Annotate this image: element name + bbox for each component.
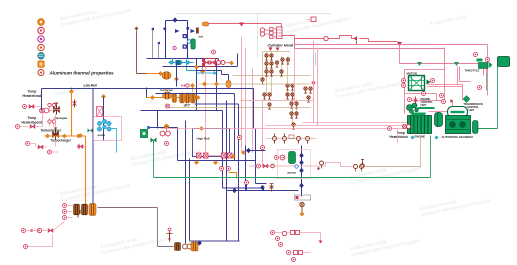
junction 5 — [198, 241, 202, 246]
block 7 — [202, 63, 205, 66]
arrow — [191, 29, 196, 33]
sensor 26 — [422, 92, 426, 96]
red cluster A — [271, 231, 323, 247]
navy diamonds — [247, 148, 251, 153]
component 5 — [55, 84, 94, 98]
sensor 8 — [16, 125, 20, 129]
wire 30 — [135, 27, 139, 31]
wire 55 — [409, 100, 446, 102]
magenta sensor — [173, 46, 177, 50]
svg-text:pump: pump — [98, 133, 106, 137]
block 9 — [270, 32, 274, 35]
component 25 — [97, 119, 111, 131]
junction 1 — [233, 188, 237, 193]
wire 33 — [146, 88, 148, 98]
component 1 — [60, 2, 132, 29]
sensor 15 — [257, 164, 261, 168]
component 9 — [420, 192, 492, 219]
block 3 — [164, 28, 167, 31]
node 16 — [231, 154, 235, 158]
wire 67 — [275, 233, 321, 241]
arrow 6 — [319, 241, 323, 244]
wire 34 — [156, 94, 235, 161]
legend icon 6 orange block — [38, 61, 44, 67]
node 18 — [213, 160, 217, 164]
red sensor — [212, 50, 216, 54]
component 35 — [300, 202, 304, 212]
wire 53 — [405, 94, 437, 101]
svg-text:UNIT: UNIT — [469, 109, 475, 112]
arrow 4 — [269, 48, 280, 52]
valve 9 — [290, 102, 293, 108]
valve 12 — [268, 103, 271, 109]
node 1 — [170, 61, 173, 64]
node 7 — [101, 94, 105, 98]
sensor right mid — [388, 127, 392, 131]
red supply line — [295, 36, 398, 42]
component 13 — [217, 61, 226, 65]
component 23 — [228, 153, 233, 158]
sensor 28 — [407, 105, 413, 111]
wire 38 — [157, 111, 159, 129]
component 12 — [226, 81, 231, 88]
node 15 — [199, 126, 203, 130]
svg-text:pump: pump — [288, 171, 296, 175]
wire 65 — [98, 208, 174, 247]
sensor 36 — [292, 258, 296, 262]
sensor 22 — [431, 79, 435, 83]
junction 4 — [300, 168, 304, 173]
node diamond — [173, 18, 177, 23]
legend icon 3 magenta sensor — [38, 36, 44, 42]
node 6 — [69, 89, 73, 93]
valve 16 — [30, 125, 35, 129]
node 2 — [194, 65, 198, 69]
wire 35 — [195, 104, 239, 241]
svg-text:Temp: Temp — [28, 90, 37, 94]
svg-text:Heaterhead: Heaterhead — [23, 94, 41, 98]
green vertical right — [477, 67, 498, 129]
block 17 — [296, 231, 300, 235]
sensor 14 — [220, 167, 224, 171]
wire 45 — [246, 146, 266, 151]
shaft wire 1 — [486, 74, 488, 91]
component 14 — [260, 28, 264, 36]
legend icon 7 aluminum — [38, 70, 44, 76]
sensor 29 — [442, 100, 446, 104]
block 8 — [270, 28, 274, 31]
red manifold — [260, 27, 282, 39]
component 18 — [163, 92, 172, 99]
navy long verticals — [163, 54, 238, 111]
red bits lower left — [26, 142, 30, 146]
svg-text:Wastegate: Wastegate — [55, 116, 68, 120]
component 4 — [335, 74, 407, 101]
svg-text:THROTTLE: THROTTLE — [465, 69, 480, 73]
sensor 34 — [271, 231, 275, 235]
wire 18 — [226, 62, 231, 64]
component 29 — [477, 57, 510, 69]
bottom center heat exchangers — [167, 228, 202, 251]
wire 23 — [263, 51, 291, 53]
wire 12 — [151, 28, 154, 31]
block 12 — [278, 150, 311, 179]
valve 13 — [304, 87, 307, 93]
svg-text:Exchanger: Exchanger — [161, 89, 173, 92]
svg-text:Cylinder Head: Cylinder Head — [268, 44, 294, 48]
valves grid — [265, 54, 268, 60]
wire 14 — [173, 59, 197, 71]
coolant wire 1 — [202, 67, 204, 75]
sensor 32 — [30, 229, 33, 232]
sensor 6 — [486, 58, 490, 62]
high rail box — [193, 129, 230, 157]
coolant wire 3 — [192, 88, 194, 92]
wire 27 — [294, 49, 296, 105]
component 16 — [48, 120, 56, 123]
component 19 — [185, 93, 190, 103]
wire 31 — [92, 89, 94, 205]
block 10 — [270, 36, 274, 39]
wire 29 — [30, 144, 85, 153]
svg-text:Turbocharger: Turbocharger — [41, 129, 62, 133]
node 19 — [241, 150, 245, 154]
valve 14 — [307, 96, 310, 102]
orange pin — [164, 124, 168, 130]
blue dot — [147, 126, 150, 129]
svg-text:text: text — [199, 35, 204, 39]
sensor 11 — [238, 136, 242, 140]
clutch capsule — [448, 107, 468, 118]
component 30 — [473, 121, 479, 134]
wire 57 — [429, 111, 448, 113]
component 28 — [273, 134, 310, 144]
pump 1 — [280, 155, 285, 160]
green diamond — [463, 96, 470, 103]
node 8 — [45, 134, 49, 138]
sensor 24 — [478, 86, 482, 90]
component 10 — [100, 230, 172, 257]
component 15 — [48, 103, 56, 106]
svg-text:AUTOMATIC GEARBOX: AUTOMATIC GEARBOX — [442, 135, 474, 139]
node 5 — [229, 61, 233, 65]
wire 11 — [158, 43, 160, 59]
wastegate 1 — [54, 103, 60, 115]
block 4 — [187, 27, 190, 30]
sensor 20 — [273, 137, 277, 141]
coolant wire 4 — [229, 173, 237, 179]
component 2 — [280, 10, 352, 37]
wire 51 — [275, 134, 308, 144]
motor box — [409, 76, 431, 91]
valve 20 — [48, 229, 53, 233]
arrow 3 — [454, 62, 459, 66]
wire 66 — [26, 222, 65, 247]
pink trio to engine — [161, 123, 408, 129]
component 20 — [191, 93, 196, 103]
wire 61 — [418, 107, 435, 109]
sensor 19 — [261, 146, 265, 150]
heat exchanger 1 — [74, 204, 80, 214]
heat exchanger 2 — [89, 204, 96, 216]
sensor 35 — [287, 251, 291, 255]
crimson box with valves — [204, 59, 216, 67]
block 15 — [296, 196, 299, 199]
red mini valve — [182, 84, 190, 87]
torque converter — [435, 113, 443, 127]
block 6 — [202, 59, 205, 62]
teal segment — [169, 62, 194, 64]
wire 43 — [185, 121, 187, 244]
legend icon 4 red-orange sensor — [38, 44, 44, 50]
wire 22 — [233, 52, 313, 127]
component 31 — [403, 125, 411, 129]
sensor 13 — [165, 142, 169, 146]
box with valve bottom-center — [295, 195, 311, 216]
green arrowheads — [417, 62, 422, 66]
wire 68 — [291, 252, 311, 254]
component 21 — [204, 153, 209, 158]
valve 18 — [78, 145, 83, 149]
sensor 12 — [97, 121, 101, 125]
svg-text:JKT: JKT — [184, 104, 191, 108]
svg-text:Turbocharger: Turbocharger — [51, 139, 72, 143]
brown fitting — [196, 28, 199, 34]
cyan line — [197, 72, 214, 74]
heat exchanger 4 — [191, 242, 198, 251]
wire 56 — [445, 48, 458, 107]
wire 20 — [265, 29, 277, 37]
tan return rect — [365, 166, 421, 168]
orange barrel small — [172, 94, 177, 103]
component 26 — [317, 161, 323, 170]
svg-text:Low Rail: Low Rail — [84, 84, 97, 88]
wire 60 — [247, 100, 314, 102]
sensor 17 — [295, 165, 298, 168]
valve 1 — [204, 61, 209, 65]
sensor 7 — [23, 105, 27, 109]
orange fitting — [203, 22, 209, 26]
valve 5 — [281, 58, 284, 64]
sensor 30 — [63, 204, 67, 208]
wire 41 — [226, 101, 228, 241]
ecu valve — [414, 97, 418, 106]
sensor 5 — [324, 36, 328, 40]
wire 37 — [141, 110, 223, 112]
sensor 21 — [402, 79, 406, 83]
red cluster B — [287, 251, 311, 262]
wire 36 — [253, 89, 255, 129]
component 22 — [222, 153, 227, 158]
wire 49 — [88, 129, 93, 133]
wire 59 — [460, 67, 471, 82]
node 13 — [190, 83, 194, 87]
brown valve on tan — [361, 160, 365, 168]
component 33 — [167, 228, 173, 242]
valve dark — [76, 210, 81, 218]
block 13 — [289, 135, 294, 139]
wire — [209, 24, 295, 49]
junction 2 — [300, 183, 304, 188]
wastegate 2 — [53, 128, 59, 140]
faint boundary box — [176, 14, 331, 59]
coolant wire 2 — [45, 88, 86, 207]
navy arrow — [175, 29, 180, 33]
maroon feed — [137, 31, 147, 74]
sensor 31 — [22, 229, 26, 233]
side risers — [152, 28, 154, 59]
red pump w/ X — [40, 108, 49, 113]
svg-text:High Rail: High Rail — [197, 137, 210, 141]
red valves in box — [197, 153, 202, 158]
wire 39 — [149, 128, 193, 161]
orange pump ellipse — [162, 72, 171, 80]
component 36 — [282, 231, 286, 235]
block 19 — [299, 251, 303, 255]
component 24 — [97, 107, 103, 117]
sensor 23 — [474, 53, 478, 57]
arrow 1 — [239, 23, 244, 27]
orange diamond — [200, 69, 204, 73]
left heat exchanger bank — [63, 204, 174, 247]
svg-text:HeaterSpeed: HeaterSpeed — [22, 121, 43, 125]
orange upper line — [167, 84, 311, 108]
wire loop — [166, 21, 188, 59]
valve 10 — [290, 112, 293, 118]
red sensor — [166, 104, 170, 108]
svg-text:ENGINE: ENGINE — [415, 135, 426, 139]
teal diamonds under engine — [411, 136, 439, 140]
valve 15 — [29, 105, 34, 109]
block 18 — [294, 251, 298, 255]
valve 19 — [263, 164, 268, 168]
sensor 33 — [24, 245, 28, 249]
wire 32 — [103, 97, 105, 141]
red wiring grid — [405, 48, 487, 114]
component 8 — [60, 177, 132, 204]
wire 48 — [301, 146, 303, 191]
block 11 — [277, 27, 283, 39]
legend icon 5 teal sensor — [38, 53, 45, 60]
arrow 2 — [354, 36, 358, 41]
left big loop — [42, 89, 254, 111]
JKT barrels — [180, 93, 185, 103]
navy pump 1 — [183, 34, 187, 38]
wire 25 — [233, 76, 313, 101]
wire 52 — [405, 70, 445, 114]
valve 8 — [286, 93, 289, 99]
sensor 25 — [408, 98, 412, 102]
wire 16 — [176, 63, 178, 87]
blue circle — [187, 40, 191, 44]
wire 63 — [392, 129, 398, 144]
wire 21 — [356, 41, 358, 45]
tan return — [420, 138, 422, 168]
svg-text:Aluminum thermal properties: Aluminum thermal properties — [49, 70, 115, 75]
valve 6 — [263, 93, 266, 99]
red diamond — [311, 81, 316, 86]
svg-text:Heaterblock: Heaterblock — [390, 135, 408, 139]
component 7 — [350, 160, 422, 187]
sensor 18 — [275, 156, 279, 160]
node 11 — [158, 71, 162, 75]
legend icon 1 orange gauge — [38, 19, 45, 26]
node 20 — [300, 212, 304, 216]
valve 2 — [265, 62, 268, 68]
node 9 — [78, 133, 82, 137]
sensor 10 — [245, 181, 249, 185]
wire 26 — [262, 52, 264, 81]
junction 3 — [300, 153, 304, 158]
wire 15 — [214, 71, 218, 75]
node 4 — [174, 77, 178, 81]
wire 28 — [20, 107, 54, 127]
node 10 — [150, 95, 154, 99]
wire 13 — [157, 42, 160, 45]
valve 4 — [261, 78, 264, 84]
valve 7 — [286, 84, 289, 90]
valve 3 — [265, 70, 268, 76]
wire 24 — [267, 52, 297, 127]
valve 11 — [292, 123, 295, 129]
heat exchanger 3 — [175, 243, 181, 251]
brown pump row — [267, 138, 317, 140]
wire 40 — [223, 111, 302, 197]
red pump pair — [160, 131, 170, 136]
wire 19 — [277, 30, 283, 36]
pink connecting — [53, 110, 61, 147]
sensor 16 — [271, 164, 275, 168]
wire 42 — [190, 151, 246, 242]
wire 50 — [112, 129, 117, 153]
component 11 — [350, 232, 422, 259]
navy bus — [147, 59, 219, 61]
orange JKT line — [147, 74, 181, 98]
wire — [295, 45, 488, 96]
wire 46 — [246, 185, 248, 191]
sensor 9 — [48, 150, 52, 154]
component 32 — [37, 228, 41, 232]
svg-text:UNIT: UNIT — [421, 104, 427, 107]
node 3 — [194, 95, 198, 99]
wire 62 — [451, 99, 454, 103]
brown hook — [270, 184, 274, 192]
component 17 — [73, 100, 77, 108]
valve 17 — [38, 145, 43, 149]
component 34 — [183, 244, 192, 249]
wire 54 — [428, 85, 463, 101]
component 6 — [130, 142, 202, 169]
block 14 — [295, 195, 311, 200]
navy pump 2 — [183, 45, 187, 49]
wire 17 — [307, 19, 311, 21]
green pump square — [141, 130, 148, 138]
wire 64 — [67, 206, 73, 218]
gearbox — [446, 116, 471, 134]
component 27 — [354, 165, 364, 172]
node 14 — [202, 82, 206, 86]
wire 58 — [484, 63, 487, 76]
node 17 — [194, 160, 198, 164]
green barrel — [191, 39, 195, 49]
wire 44 — [191, 160, 256, 162]
gears — [407, 103, 419, 114]
block 16 — [291, 231, 295, 235]
node 12 — [196, 95, 200, 99]
legend icon 2 red sensor — [38, 27, 44, 33]
red triangle junction — [397, 42, 402, 46]
component 3 — [430, 14, 469, 28]
